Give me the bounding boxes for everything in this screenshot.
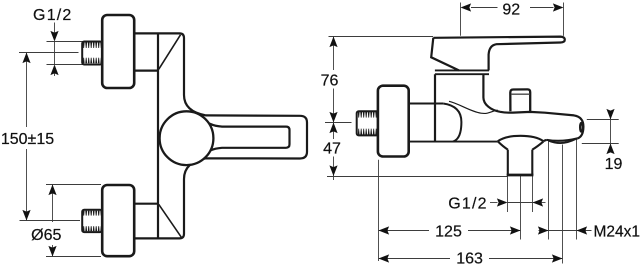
svg-text:G1/2: G1/2 [448, 196, 488, 213]
svg-text:76: 76 [321, 72, 339, 89]
svg-text:M24x1: M24x1 [594, 224, 640, 241]
svg-text:Ø65: Ø65 [31, 227, 61, 244]
svg-text:47: 47 [323, 141, 341, 158]
svg-text:125: 125 [435, 224, 462, 241]
svg-text:G1/2: G1/2 [33, 7, 73, 24]
svg-text:163: 163 [456, 251, 483, 268]
svg-text:19: 19 [605, 156, 623, 173]
svg-text:150±15: 150±15 [1, 131, 54, 148]
svg-text:92: 92 [502, 1, 520, 18]
